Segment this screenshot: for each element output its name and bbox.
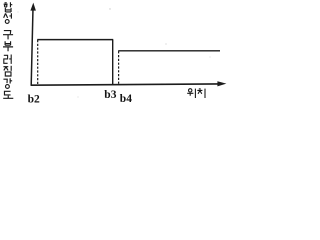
svg-text:b3: b3 [104, 89, 116, 101]
svg-text:b2: b2 [28, 93, 40, 105]
svg-text:b4: b4 [120, 93, 132, 105]
